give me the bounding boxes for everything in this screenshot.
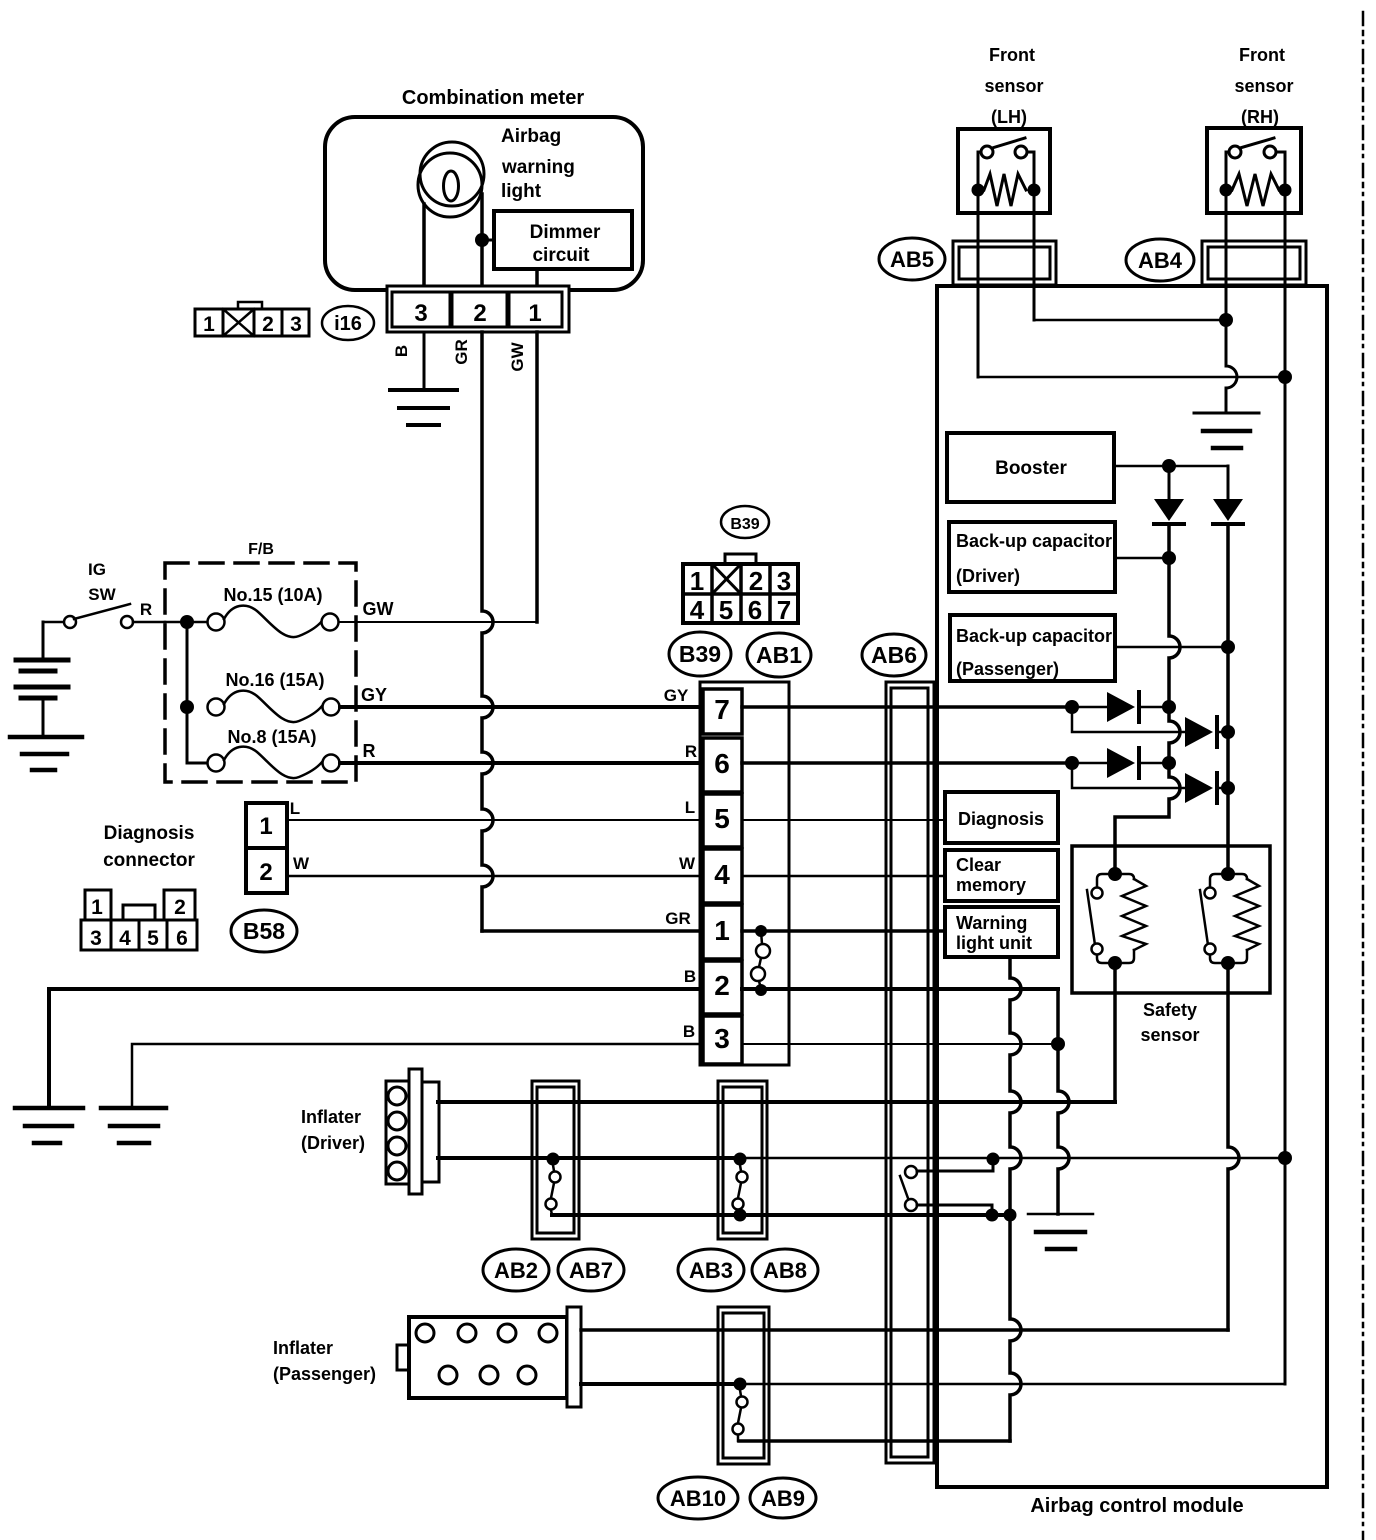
inflater driver connector [386, 1069, 439, 1194]
wire L right of connector [742, 819, 945, 821]
warning light unit box [945, 907, 1058, 957]
wire backup driver [1115, 557, 1169, 560]
label ellipse AB7 [558, 1249, 624, 1291]
safety sensor box [1072, 846, 1270, 993]
svg-text:(Driver): (Driver) [956, 566, 1020, 586]
wire sensors y377 [978, 376, 1285, 379]
svg-text:IG: IG [88, 560, 106, 579]
back-up capacitor driver box [949, 522, 1115, 592]
label ellipse AB2 [483, 1249, 549, 1291]
switch in AB10/AB9 [733, 1390, 748, 1441]
wire GW fuse to meter [339, 621, 537, 623]
svg-text:sensor: sensor [1234, 76, 1293, 96]
svg-text:2: 2 [749, 566, 763, 596]
svg-text:Booster: Booster [995, 458, 1067, 479]
svg-text:AB6: AB6 [871, 642, 917, 668]
svg-text:B39: B39 [730, 516, 759, 533]
svg-text:sensor: sensor [984, 76, 1043, 96]
svg-text:Inflater: Inflater [273, 1338, 333, 1358]
svg-text:Back-up capacitor: Back-up capacitor [956, 626, 1112, 646]
svg-text:3: 3 [290, 313, 302, 336]
svg-text:7: 7 [714, 694, 730, 725]
junction dot jumper pin1 [755, 925, 767, 937]
svg-text:circuit: circuit [532, 245, 590, 266]
svg-text:AB10: AB10 [670, 1486, 726, 1511]
svg-text:(Passenger): (Passenger) [273, 1364, 376, 1384]
svg-text:W: W [679, 854, 696, 873]
wire GR horizontal to pin 1 [482, 929, 703, 933]
safety sensor element left [1087, 874, 1146, 963]
svg-text:AB8: AB8 [763, 1258, 807, 1283]
svg-text:AB1: AB1 [756, 642, 802, 668]
svg-text:Inflater: Inflater [301, 1107, 361, 1127]
connector icon B58 [81, 890, 197, 950]
diode D2 down [1227, 466, 1230, 500]
svg-text:AB2: AB2 [494, 1258, 538, 1283]
wire GY right of connector [742, 705, 1072, 709]
ground sensor common [1194, 413, 1259, 448]
svg-text:Combination meter: Combination meter [402, 87, 584, 109]
fuse bus vertical [187, 622, 207, 763]
fuse No.16 [208, 691, 340, 722]
back-up capacitor passenger box [950, 615, 1115, 681]
svg-text:Front: Front [989, 45, 1035, 65]
front sensor RH box [1207, 128, 1301, 213]
wire safety left leg down [1113, 963, 1117, 1102]
wire R fuse to pin 6 [340, 761, 703, 765]
svg-text:GR: GR [665, 909, 691, 928]
svg-text:B: B [392, 345, 411, 357]
diagnosis box [945, 792, 1058, 843]
svg-text:AB9: AB9 [761, 1486, 805, 1511]
wire driver return [552, 1213, 1010, 1217]
svg-text:Diagnosis: Diagnosis [104, 823, 195, 844]
svg-text:F/B: F/B [248, 541, 274, 558]
wire driver squib minus left [438, 1156, 740, 1160]
svg-text:Airbag: Airbag [501, 126, 561, 147]
connector AB10/AB9 [718, 1307, 769, 1464]
combination meter box [325, 117, 643, 290]
svg-text:L: L [290, 799, 300, 818]
ground battery [10, 737, 82, 770]
connector pin 4 [703, 849, 742, 903]
connector pin 1 [703, 905, 742, 959]
ground B pin2 [15, 1108, 83, 1143]
battery [16, 622, 68, 736]
wire GY fuse to pin 7 [340, 705, 703, 709]
svg-text:4: 4 [690, 595, 705, 625]
front sensor RH switch [1226, 138, 1285, 186]
ground B pin3 [101, 1108, 166, 1143]
wire B pin2 to ground [49, 989, 703, 1107]
svg-text:3: 3 [90, 927, 102, 950]
connector B39/AB1 body [700, 682, 789, 1065]
junction dot wavy to return wire [1004, 1209, 1017, 1222]
svg-text:GY: GY [361, 685, 387, 705]
svg-text:1: 1 [259, 813, 272, 840]
svg-text:GW: GW [508, 341, 527, 371]
wire R right of connector [742, 761, 1072, 765]
svg-text:5: 5 [719, 595, 733, 625]
airbag warning light lamp [418, 142, 484, 217]
label ellipse AB10 [658, 1477, 738, 1519]
wire driver squib plus [438, 1100, 1115, 1104]
label ellipse i16 [322, 306, 374, 340]
wire dimmer tap stub [482, 239, 494, 242]
svg-text:(Passenger): (Passenger) [956, 659, 1059, 679]
svg-text:R: R [685, 742, 697, 761]
label ellipse AB1 [747, 633, 811, 677]
svg-text:AB7: AB7 [569, 1258, 613, 1283]
svg-text:memory: memory [956, 875, 1026, 895]
booster box [947, 433, 1114, 502]
fuse No.8 [208, 747, 340, 778]
connector AB6 strip [886, 682, 934, 1463]
wire LH left pin down [977, 196, 980, 377]
label ellipse AB6 [862, 634, 926, 676]
svg-text:No.8 (15A): No.8 (15A) [227, 727, 316, 747]
svg-text:No.15 (10A): No.15 (10A) [223, 585, 322, 605]
svg-text:No.16 (15A): No.16 (15A) [225, 670, 324, 690]
dimmer circuit box [494, 211, 632, 269]
label ellipse B39 [669, 632, 731, 676]
svg-text:GW: GW [363, 599, 394, 619]
label ellipse B58 [231, 910, 297, 952]
wire W to pin 4 [287, 875, 703, 878]
wire switch into fusebox [165, 621, 207, 624]
svg-text:L: L [685, 798, 695, 817]
wire passenger squib plus [581, 1328, 1228, 1332]
diode row3 [1065, 756, 1079, 770]
wire B pin2 right of connector to internal ground [742, 987, 1058, 991]
junction dot record switch bottom [986, 1209, 999, 1222]
svg-text:(RH): (RH) [1241, 107, 1279, 127]
svg-text:1: 1 [203, 313, 215, 336]
inflater passenger connector [397, 1307, 581, 1407]
wire D2 cathode down [1226, 524, 1230, 874]
svg-text:AB4: AB4 [1138, 248, 1183, 273]
svg-text:R: R [140, 600, 152, 619]
svg-text:Front: Front [1239, 45, 1285, 65]
connector pin 3 [703, 1016, 742, 1064]
connector AB3/AB8 [718, 1081, 767, 1239]
wire pin3 to ground [423, 332, 426, 389]
label ellipse B39 top [721, 506, 769, 538]
svg-text:6: 6 [748, 595, 762, 625]
wire LH right pin down [1033, 196, 1036, 320]
wire passenger return [739, 1439, 1010, 1443]
svg-text:5: 5 [147, 927, 159, 950]
svg-text:SW: SW [88, 585, 116, 604]
connector pin 2 [703, 961, 742, 1014]
svg-text:R: R [363, 741, 376, 761]
svg-text:7: 7 [777, 595, 791, 625]
svg-text:Clear: Clear [956, 855, 1001, 875]
svg-text:2: 2 [714, 970, 730, 1001]
wire passenger squib minus right [740, 1383, 1285, 1386]
connector pin 5 [703, 794, 742, 847]
switch in AB2/AB7 [546, 1165, 561, 1215]
svg-text:sensor: sensor [1140, 1025, 1199, 1045]
junction dot jumper pin2 [755, 984, 767, 996]
fuse box F/B dashed [165, 563, 356, 782]
wire GR right of connector [742, 929, 945, 933]
svg-text:(Driver): (Driver) [301, 1133, 365, 1153]
front sensor LH resistor [984, 174, 1026, 206]
airbag control module box [937, 286, 1327, 1487]
svg-text:AB5: AB5 [890, 247, 934, 272]
svg-text:4: 4 [119, 927, 131, 950]
svg-text:5: 5 [714, 803, 730, 834]
svg-text:1: 1 [690, 566, 704, 596]
svg-text:Back-up capacitor: Back-up capacitor [956, 531, 1112, 551]
svg-text:6: 6 [714, 748, 730, 779]
svg-text:3: 3 [777, 566, 791, 596]
front sensor LH switch [978, 138, 1034, 186]
diagnosis connector pins 1/2 [246, 803, 287, 893]
svg-text:2: 2 [174, 896, 186, 919]
svg-text:6: 6 [176, 927, 188, 950]
connector AB4 [1202, 241, 1306, 285]
wire dimmer to pin 1 [535, 269, 539, 287]
junction dot fuse bus 1 [180, 615, 194, 629]
connector pin 6 [703, 738, 742, 792]
svg-text:4: 4 [714, 859, 730, 890]
label ellipse AB3 [678, 1249, 744, 1291]
wire GW meter vertical [535, 332, 539, 622]
wire driver squib minus right [740, 1157, 1285, 1160]
junction dot driver loop to sensor line [1278, 1151, 1292, 1165]
svg-text:B: B [684, 967, 696, 986]
wire B pin3 to ground [132, 1044, 703, 1107]
safety sensor element right [1200, 874, 1259, 963]
page edge dashed line [1362, 12, 1365, 1540]
svg-text:GR: GR [452, 339, 471, 365]
wire backup passenger [1115, 646, 1228, 649]
wire safety right leg down with hop [1228, 963, 1239, 1330]
diode row2 [1072, 707, 1185, 732]
svg-text:light: light [501, 181, 542, 202]
wire GR meter vertical with hops [482, 332, 493, 931]
svg-text:(LH): (LH) [991, 107, 1027, 127]
svg-text:2: 2 [259, 859, 272, 886]
svg-text:Diagnosis: Diagnosis [958, 809, 1044, 829]
svg-text:warning: warning [501, 157, 575, 178]
wire W right of connector [742, 875, 945, 878]
svg-text:Dimmer: Dimmer [530, 222, 601, 243]
svg-text:1: 1 [714, 915, 730, 946]
connector icon B39 grid [683, 554, 798, 625]
front sensor RH resistor [1232, 174, 1279, 206]
junction dot record switch top [987, 1153, 1000, 1166]
junction dot fuse bus 2 [180, 700, 194, 714]
svg-text:light unit: light unit [956, 933, 1032, 953]
fuse No.15 [208, 606, 339, 637]
connector icon i16 [195, 302, 309, 336]
svg-text:3: 3 [714, 1023, 730, 1054]
svg-text:W: W [293, 854, 310, 873]
connector AB2/AB7 [532, 1081, 579, 1239]
label ellipse AB5 [879, 238, 945, 280]
svg-text:2: 2 [473, 300, 486, 327]
wire passenger squib minus left [581, 1382, 740, 1386]
svg-text:1: 1 [528, 300, 541, 327]
svg-text:B58: B58 [243, 918, 285, 944]
ground meter [390, 390, 457, 425]
switch in AB3/AB8 [733, 1165, 748, 1214]
connector pin 7 [703, 689, 742, 734]
svg-text:3: 3 [414, 300, 427, 327]
front sensor LH box [958, 129, 1050, 213]
label ellipse AB8 [752, 1249, 818, 1291]
connector AB5 [953, 241, 1056, 285]
wire lamp right leg to pin 2 [480, 194, 484, 287]
svg-text:GY: GY [664, 686, 689, 705]
diode row4 [1072, 763, 1185, 788]
svg-text:i16: i16 [334, 313, 362, 335]
wire sensors y320 [1034, 319, 1226, 322]
wire B pin3 right of connector [742, 1043, 1058, 1045]
wire booster to diodes [1114, 465, 1228, 468]
clear memory box [945, 850, 1058, 901]
svg-text:connector: connector [103, 850, 195, 871]
wire RH left pin down with hop [1226, 196, 1237, 413]
record switch [900, 1160, 993, 1214]
svg-text:1: 1 [91, 896, 103, 919]
svg-text:AB3: AB3 [689, 1258, 733, 1283]
svg-text:B39: B39 [679, 641, 721, 667]
jumper link pins 1-2 [751, 931, 770, 989]
svg-text:Warning: Warning [956, 913, 1027, 933]
wire warning light unit down wavy [1010, 957, 1021, 1441]
wire L to pin 5 [287, 819, 703, 821]
svg-text:B: B [683, 1022, 695, 1041]
label ellipse AB4 [1126, 239, 1194, 281]
wire lamp left leg to pin 3 [422, 204, 426, 287]
svg-text:Airbag control module: Airbag control module [1030, 1495, 1243, 1517]
wire RH right pin down full [1284, 196, 1287, 1384]
junction dot dimmer tap [475, 233, 489, 247]
ground module internal [1028, 1214, 1093, 1249]
wire D1 cathode down with hops [1115, 524, 1180, 874]
svg-text:Safety: Safety [1143, 1000, 1197, 1020]
svg-text:2: 2 [262, 313, 274, 336]
label ellipse AB9 [750, 1478, 816, 1518]
diode row1 [1065, 700, 1079, 714]
diode D1 down [1168, 466, 1171, 500]
meter connector i16 strip [387, 286, 569, 332]
